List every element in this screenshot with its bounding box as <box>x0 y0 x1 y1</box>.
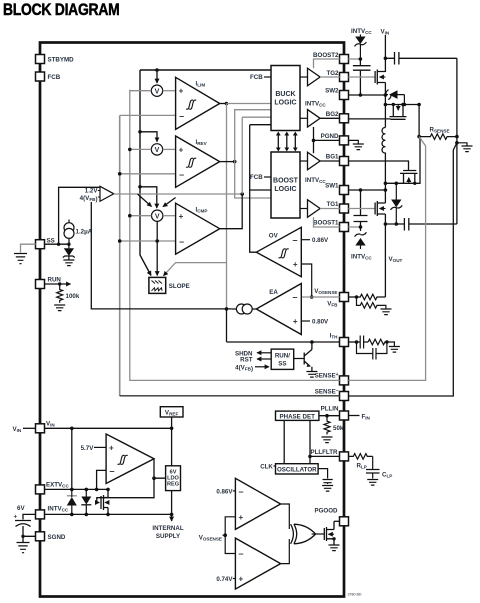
svg-text:LOGIC: LOGIC <box>274 186 296 193</box>
wire SW1 external <box>348 188 387 192</box>
op-amp ICMP <box>176 203 220 254</box>
svg-text:TG1: TG1 <box>326 201 339 208</box>
label 4(VFB) arrow <box>235 364 269 372</box>
label FIN <box>348 413 370 420</box>
driver TG2 <box>300 68 340 86</box>
diode D2 schottky <box>385 90 406 107</box>
ground 50k <box>322 437 333 443</box>
wire mux output <box>114 192 244 196</box>
wire V right lead IREV <box>163 148 176 150</box>
svg-text:BOOST2: BOOST2 <box>313 52 339 59</box>
wire RUN internal with arrow <box>44 282 70 285</box>
wire BOOST2 external <box>348 57 362 61</box>
svg-text:–: – <box>110 466 115 476</box>
svg-text:1.2µA: 1.2µA <box>76 229 93 236</box>
wire gray slope feedback <box>164 263 227 276</box>
svg-text:SLOPE: SLOPE <box>169 283 190 290</box>
wire ILIM minus input <box>120 114 176 116</box>
wire BOOST2 to TG2 driver <box>314 59 340 68</box>
wire black bus to slope <box>140 70 151 276</box>
wire ITH line <box>227 340 340 344</box>
label FCB boost <box>250 174 271 181</box>
wire input ground rail <box>455 58 459 224</box>
pin TG2 <box>326 70 348 82</box>
pin PGOOD <box>314 508 348 526</box>
pin INTVCC <box>36 506 69 519</box>
svg-text:+: + <box>109 443 114 452</box>
wire VIN rail <box>384 35 388 72</box>
current source 1.2uA <box>64 220 93 245</box>
op-amp OV <box>256 227 301 276</box>
wire VOSENSE to pgood comparators <box>199 517 236 554</box>
svg-text:IREV: IREV <box>196 139 208 146</box>
svg-text:–: – <box>179 237 184 247</box>
label INTVCC bg2 <box>305 101 326 108</box>
svg-text:0.80V: 0.80V <box>312 319 329 326</box>
wire buck-boost arrows <box>276 132 298 152</box>
wire V right lead ILIM <box>163 90 176 92</box>
resistor RSENSE <box>419 127 457 140</box>
svg-text:ICMP: ICMP <box>196 207 208 214</box>
wire BOOST1 external <box>348 225 362 229</box>
driver TG1 <box>300 200 340 218</box>
wire SS to mux <box>59 187 100 244</box>
node IREV output <box>220 160 237 164</box>
inductor L <box>382 128 385 191</box>
resistor 50k <box>324 416 344 435</box>
ground PGND external <box>348 140 364 149</box>
pin VIN <box>36 421 56 433</box>
svg-text:FCB: FCB <box>250 74 263 81</box>
pin PLLFLTR <box>310 449 348 461</box>
wire SENSE- external <box>348 143 457 396</box>
chip boundary <box>40 43 344 597</box>
wire ICMP output <box>220 117 243 229</box>
svg-text:PLLIN: PLLIN <box>321 406 339 413</box>
current source EA gm <box>232 304 257 314</box>
wire PLLIN to phase det <box>319 414 340 418</box>
resistor ITH <box>368 339 389 345</box>
label INTVCC bg1 <box>305 177 326 184</box>
label part number <box>348 593 362 597</box>
wire V left lead ILIM <box>130 90 152 92</box>
svg-text:RUN/: RUN/ <box>275 353 290 360</box>
node IREV V tap <box>138 130 157 142</box>
wire IREV minus input <box>118 172 176 176</box>
transistor M3 (BG1 switch, rotated) <box>384 137 420 186</box>
transistor M2 (TG2 switch) <box>348 70 385 96</box>
diode INTVCC to BOOST1 <box>351 227 372 261</box>
capacitor COUT <box>404 218 457 231</box>
svg-text:0.86V: 0.86V <box>312 237 329 244</box>
ground RUN resistor <box>54 305 65 311</box>
block OSCILLATOR <box>276 464 319 474</box>
resistor divider top <box>357 294 386 300</box>
node ILIM V tap <box>155 68 159 83</box>
label CLK <box>260 463 275 470</box>
pin PGND <box>321 133 349 145</box>
wire OV plus branch <box>301 264 313 299</box>
svg-text:INTVCC: INTVCC <box>351 254 372 261</box>
pin BG1 <box>326 154 349 166</box>
svg-text:PLLFLTR: PLLFLTR <box>310 449 338 456</box>
svg-text:VIN: VIN <box>381 29 390 36</box>
svg-text:+: + <box>179 87 184 96</box>
svg-text:TG2: TG2 <box>326 70 339 77</box>
svg-text:CLP: CLP <box>382 472 392 479</box>
pin SGND <box>36 532 66 541</box>
svg-text:ILIM: ILIM <box>196 81 206 88</box>
pin ITH <box>330 333 349 347</box>
svg-text:VREF: VREF <box>165 410 179 417</box>
ground ITH <box>387 342 400 352</box>
wire PLLFLTR internal <box>310 455 340 457</box>
gate XOR pgood <box>281 504 316 564</box>
ground SS external <box>14 254 27 264</box>
svg-text:BUCK: BUCK <box>275 91 295 98</box>
wire V bottom to slope junction <box>155 222 159 276</box>
source V IREV <box>151 144 162 155</box>
op-amp EA <box>256 284 301 335</box>
source V ICMP <box>152 210 163 221</box>
pin SS <box>36 238 55 249</box>
label FCB buck <box>250 74 271 81</box>
svg-text:–: – <box>239 487 244 497</box>
label 0.80V EA <box>301 319 329 326</box>
label VIN external <box>13 426 36 433</box>
ground SS clamp <box>63 260 74 266</box>
svg-text:PGND: PGND <box>321 133 339 140</box>
wire EXTVCC internal <box>44 488 108 492</box>
svg-text:100k: 100k <box>66 293 80 300</box>
wire BG1 to M3 gate <box>348 161 408 171</box>
svg-text:SS: SS <box>47 238 55 245</box>
pin SW2 <box>325 88 348 100</box>
svg-text:INTERNAL: INTERNAL <box>152 525 183 532</box>
wire V left lead IREV <box>128 148 151 152</box>
svg-text:VIN: VIN <box>13 426 22 433</box>
wire IREV out to buck <box>235 110 271 162</box>
block PHASE DET <box>276 411 319 420</box>
wire ITH external <box>348 340 358 344</box>
ground 6V cap <box>17 543 30 553</box>
svg-text:+: + <box>293 317 298 326</box>
transistor Q ith pulldown <box>294 342 312 371</box>
wire VOUT rail <box>384 222 404 297</box>
pin SW1 <box>325 183 348 195</box>
svg-text:BLOCK DIAGRAM: BLOCK DIAGRAM <box>3 1 119 19</box>
svg-text:–: – <box>292 235 297 245</box>
label INTVCC top <box>351 28 372 35</box>
label 0.86V pgood <box>216 488 235 495</box>
wire top rail to buck logic <box>140 69 271 71</box>
svg-text:+: + <box>239 575 244 584</box>
svg-text:RLP: RLP <box>357 463 367 470</box>
wire VREF to LDO <box>171 417 173 466</box>
wire right diagonal into V <box>163 198 176 207</box>
svg-text:VOUT: VOUT <box>389 256 403 263</box>
svg-text:4(VFB): 4(VFB) <box>80 195 98 203</box>
pin BOOST1 <box>313 220 348 232</box>
ground Q emitter <box>306 372 317 378</box>
svg-text:INTVCC: INTVCC <box>351 28 372 35</box>
wire mux diagonal into V <box>138 194 152 207</box>
selector mux 1.2V / 4(VFB) <box>80 186 114 203</box>
wire IREV out to boost <box>235 162 271 198</box>
svg-text:SW1: SW1 <box>325 183 339 190</box>
svg-text:SW2: SW2 <box>325 88 339 95</box>
pin BG2 <box>326 111 349 123</box>
wire sense+ bus (gray) <box>130 90 340 381</box>
ground CLP <box>367 480 378 486</box>
svg-text:ITH: ITH <box>330 333 339 340</box>
wire phase det to oscillator <box>284 420 312 463</box>
svg-text:EXTVCC: EXTVCC <box>46 482 69 489</box>
svg-text:PGOOD: PGOOD <box>314 508 338 515</box>
wire INTVCC internal <box>44 513 173 517</box>
svg-text:6V: 6V <box>17 505 25 512</box>
svg-text:FCB: FCB <box>250 174 263 181</box>
wire EA output to VFB mux <box>91 202 231 311</box>
svg-text:+: + <box>179 212 184 221</box>
svg-text:INTVCC: INTVCC <box>305 101 326 108</box>
pin SENSE+ <box>315 372 349 385</box>
wire x249.7 loop (OV out, buck/boost) <box>250 125 271 253</box>
svg-text:INTVCC: INTVCC <box>48 506 69 513</box>
wire SS external <box>21 244 36 252</box>
transistor M4 (TG1 switch) <box>348 190 385 224</box>
wire BOOST1 to TG1 driver <box>314 217 340 227</box>
pin RUN <box>36 277 62 289</box>
svg-text:SUPPLY: SUPPLY <box>156 533 181 540</box>
wire SENSE+ external <box>348 137 425 381</box>
pin SENSE- <box>315 388 349 401</box>
node ICMP V tap <box>138 185 157 208</box>
svg-text:1.2V: 1.2V <box>85 188 99 195</box>
svg-text:–: – <box>239 549 244 559</box>
svg-text:LOGIC: LOGIC <box>274 100 296 107</box>
label VIN external <box>381 29 390 36</box>
ground PGOOD fet <box>329 545 340 551</box>
label 0.86V OV <box>301 237 329 244</box>
svg-text:5.7V: 5.7V <box>81 445 95 452</box>
svg-text:OSCILLATOR: OSCILLATOR <box>277 467 317 474</box>
wire sense- bus (gray) <box>120 115 340 396</box>
svg-text:PHASE DET: PHASE DET <box>279 413 315 420</box>
wire VIN drop to EXTVCC <box>71 428 73 489</box>
svg-text:BG1: BG1 <box>326 154 339 161</box>
capacitor CLP <box>366 456 392 478</box>
wire comparator output <box>97 459 166 503</box>
diode INTVCC to BOOST2 <box>355 35 367 60</box>
pin BOOST2 <box>313 52 348 64</box>
op-amp IREV <box>176 136 220 187</box>
op-amp 5.7V comparator <box>106 434 154 484</box>
wire V left lead ICMP <box>128 214 151 218</box>
wire LDO to INTVCC <box>171 491 173 515</box>
capacitor ITH parallel <box>357 342 387 360</box>
capacitor 6V bypass <box>14 505 36 542</box>
wire VIN internal <box>44 427 173 431</box>
wire M1 source to RSENSE <box>417 103 421 139</box>
pin PLLIN <box>321 406 349 421</box>
svg-text:OV: OV <box>269 233 279 240</box>
svg-text:–: – <box>179 169 184 179</box>
transistor PGOOD fet <box>312 521 340 544</box>
svg-text:VOSENSE: VOSENSE <box>314 288 337 295</box>
svg-text:VOSENSE: VOSENSE <box>199 535 222 542</box>
svg-text:STBYMD: STBYMD <box>48 57 75 64</box>
svg-text:FCB: FCB <box>48 74 61 81</box>
wire ICMP minus input <box>118 239 176 243</box>
wire VOSENSE line <box>301 296 339 298</box>
block RUN/SS <box>271 349 294 369</box>
svg-text:RST: RST <box>240 357 253 364</box>
svg-text:BOOST: BOOST <box>273 178 299 185</box>
pin TG1 <box>326 201 348 213</box>
block BUCK LOGIC <box>271 66 300 131</box>
svg-text:VFB: VFB <box>327 301 338 308</box>
svg-text:3780 BD: 3780 BD <box>348 593 362 597</box>
transistor EXTVCC pass fet <box>101 488 110 517</box>
label 5.7V <box>81 445 107 452</box>
svg-text:SENSE+: SENSE+ <box>315 372 339 380</box>
wire V right lead ICMP <box>163 215 176 217</box>
svg-text:BG2: BG2 <box>326 111 339 118</box>
wire VOSENSE external node <box>348 295 358 299</box>
capacitor ITH series <box>357 336 369 349</box>
diode EXTVCC right <box>81 489 91 514</box>
label RST arrow <box>240 357 271 364</box>
wire comparator minus feedback <box>95 470 106 491</box>
svg-text:–: – <box>179 111 184 121</box>
capacitor CIN <box>385 52 457 65</box>
wire ILIM out to buck <box>227 103 272 105</box>
svg-text:4(VFB): 4(VFB) <box>235 364 253 372</box>
transistor M1 (BG2 switch, rotated) <box>348 103 419 120</box>
svg-text:BOOST1: BOOST1 <box>313 220 339 227</box>
svg-text:FIN: FIN <box>362 413 371 420</box>
svg-text:VIN: VIN <box>46 421 55 428</box>
resistor 100k <box>57 284 80 303</box>
node ILIM output <box>220 102 229 106</box>
svg-text:CLK: CLK <box>260 463 273 470</box>
svg-text:0.74V: 0.74V <box>216 576 233 583</box>
wire ICMP out to buck <box>242 116 271 118</box>
wire SS internal <box>44 243 70 246</box>
svg-text:–: – <box>292 292 297 302</box>
svg-text:50k: 50k <box>333 425 344 432</box>
driver BG2 <box>300 110 340 128</box>
svg-text:0.86V: 0.86V <box>216 488 233 495</box>
diode D4 schottky <box>391 183 403 226</box>
capacitor oscillator <box>318 469 333 484</box>
pin STBYMD <box>36 55 75 64</box>
pin EXTVCC <box>36 482 70 494</box>
svg-text:INTVCC: INTVCC <box>305 177 326 184</box>
svg-text:SENSE–: SENSE– <box>315 388 339 396</box>
diode SS clamp <box>63 244 75 259</box>
source V ILIM <box>151 85 162 96</box>
svg-text:RSENSE: RSENSE <box>430 127 450 134</box>
svg-text:+: + <box>293 260 298 269</box>
block BOOST LOGIC <box>271 152 300 218</box>
svg-text:+: + <box>14 514 18 521</box>
op-amp ILIM <box>176 77 220 129</box>
label INTERNAL SUPPLY <box>152 514 183 540</box>
capacitor CB1 <box>354 190 368 227</box>
ground oscillator cap <box>322 486 333 492</box>
capacitor CB2 <box>353 59 371 95</box>
block SLOPE <box>149 277 190 293</box>
block 6V LDO REG <box>166 466 181 491</box>
wire vertical x226 (ILIM out / EA / ITH) <box>226 104 228 343</box>
label SHDN arrow <box>235 350 271 357</box>
svg-text:+: + <box>239 513 244 522</box>
title BLOCK DIAGRAM <box>3 1 119 19</box>
resistor RLP <box>348 454 372 470</box>
resistor divider bottom <box>357 297 386 309</box>
svg-text:EA: EA <box>269 289 278 296</box>
comparator 0.86V pgood <box>235 478 280 529</box>
label 0.74V pgood <box>216 576 235 583</box>
pin VOSENSE / VFB <box>314 288 348 308</box>
wire SW2 external <box>348 93 387 97</box>
wire SW2 node down <box>384 95 388 128</box>
driver BG1 <box>300 152 340 170</box>
block VREF <box>160 407 183 417</box>
svg-text:SS: SS <box>278 361 286 368</box>
diode EXTVCC left <box>67 489 77 514</box>
ground divider <box>381 309 392 315</box>
wire PGND internal <box>312 127 340 153</box>
svg-text:REG: REG <box>167 482 179 488</box>
comparator 0.74V pgood <box>235 538 280 589</box>
svg-text:SGND: SGND <box>48 534 66 541</box>
svg-text:+: + <box>179 145 184 154</box>
pin FCB <box>36 72 61 81</box>
ground input rail <box>457 143 473 152</box>
